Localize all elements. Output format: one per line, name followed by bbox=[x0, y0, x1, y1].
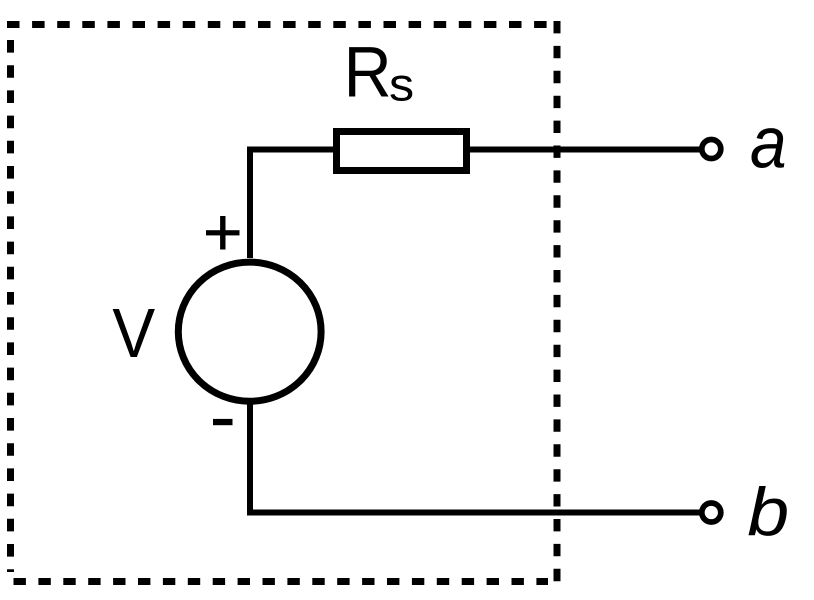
svg-text:b: b bbox=[747, 474, 789, 550]
wire: top horizontal from source to resistor bbox=[247, 147, 336, 153]
dashed enclosure box: right edge bbox=[554, 21, 561, 585]
wire: resistor to terminal a bbox=[467, 147, 700, 153]
dashed enclosure box: bottom edge bbox=[14, 578, 549, 585]
resistor Rs: body bbox=[337, 132, 467, 171]
dashed enclosure box: left edge bbox=[7, 40, 14, 572]
wire: voltage source top lead bbox=[247, 152, 253, 258]
svg-text:R: R bbox=[344, 32, 392, 111]
svg-text:V: V bbox=[112, 294, 155, 372]
terminal a: open circle bbox=[702, 140, 721, 159]
svg-text:s: s bbox=[389, 59, 414, 111]
label Rs bbox=[344, 32, 415, 111]
svg-text:a: a bbox=[750, 103, 787, 183]
dashed enclosure box: top edge bbox=[7, 21, 561, 28]
wire: voltage source bottom lead bbox=[247, 404, 253, 516]
+ polarity mark bbox=[206, 216, 240, 250]
terminal b: open circle bbox=[702, 503, 721, 522]
voltage source V: circle bbox=[178, 262, 321, 401]
wire: bottom horizontal to terminal b bbox=[247, 510, 700, 516]
- polarity mark bbox=[213, 419, 233, 425]
